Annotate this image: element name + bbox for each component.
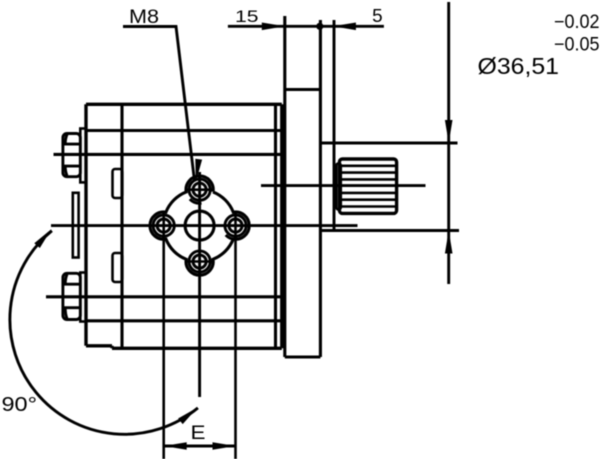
bolt hole M8 top: thread arc fragment xyxy=(190,199,202,203)
splined shaft end xyxy=(339,159,396,213)
hex plug top: washer xyxy=(80,129,86,183)
arrowhead diameter bottom xyxy=(445,231,453,254)
crosshair top hole xyxy=(186,188,212,191)
svg-text:Ø36,51: Ø36,51 xyxy=(478,53,560,79)
vertical centerline xyxy=(198,172,201,397)
hex plug bottom: head xyxy=(63,273,80,319)
dimension line E xyxy=(164,445,236,448)
leader arrowhead xyxy=(195,159,202,182)
svg-text:15: 15 xyxy=(235,7,259,26)
bolt hole M8 left: thread arc fragment xyxy=(154,235,166,239)
svg-text:M8: M8 xyxy=(129,7,159,28)
port centerline top xyxy=(54,153,284,156)
body inner vertical line left xyxy=(120,104,123,347)
port centerline bottom xyxy=(46,295,283,298)
main horizontal centerline xyxy=(51,224,358,227)
pump body outline xyxy=(86,104,282,348)
leader line M8 xyxy=(123,27,194,181)
svg-text:5: 5 xyxy=(372,6,383,26)
body inner horizontal line upper xyxy=(86,129,282,132)
body inner horizontal line lower xyxy=(86,319,282,322)
spline collar xyxy=(336,164,341,210)
center pilot bore circle xyxy=(185,211,214,240)
slot lower on inner line xyxy=(113,253,123,282)
slot upper on inner line xyxy=(113,169,123,198)
body inner vertical line right xyxy=(274,104,277,348)
arc arrowhead upper xyxy=(34,229,51,248)
arrowhead E right xyxy=(213,442,236,450)
arc arrowhead lower xyxy=(178,408,197,425)
left port tab xyxy=(73,193,79,258)
svg-text:E: E xyxy=(191,423,206,444)
svg-text:−0.02: −0.02 xyxy=(554,12,600,33)
mounting boss clover outline xyxy=(150,176,249,275)
svg-text:−0.05: −0.05 xyxy=(554,35,600,56)
bolt hole M8 right: circles xyxy=(225,215,246,236)
arrowhead diameter top xyxy=(445,120,453,143)
crosshair bottom hole xyxy=(186,260,212,263)
bolt hole M8 left: circles xyxy=(153,215,174,236)
pilot boss (Ø36.51) with extension lines xyxy=(320,20,459,231)
bolt hole M8 bottom: thread arc fragment xyxy=(190,271,202,275)
flange plate xyxy=(285,16,321,357)
hex plug top: head xyxy=(63,134,80,177)
shaft axis centerline xyxy=(261,184,426,187)
crosshair + E extension line right hole xyxy=(234,212,237,459)
90 degree rotation arc xyxy=(10,231,198,435)
arrowhead 15 xyxy=(262,23,285,31)
arrowhead E left xyxy=(164,442,187,450)
crosshair + E extension line left hole xyxy=(162,212,165,459)
bolt hole M8 top: circles xyxy=(189,179,210,200)
svg-text:90°: 90° xyxy=(2,394,38,416)
bolt hole M8 right: thread arc fragment xyxy=(226,235,238,239)
hex plug bottom: washer xyxy=(80,273,86,322)
junction dot xyxy=(316,23,323,30)
arrowhead 5 xyxy=(333,23,356,31)
dimension line 15 / 5 xyxy=(228,25,384,28)
bolt hole M8 bottom: circles xyxy=(189,251,210,272)
diameter dimension line xyxy=(447,2,450,284)
